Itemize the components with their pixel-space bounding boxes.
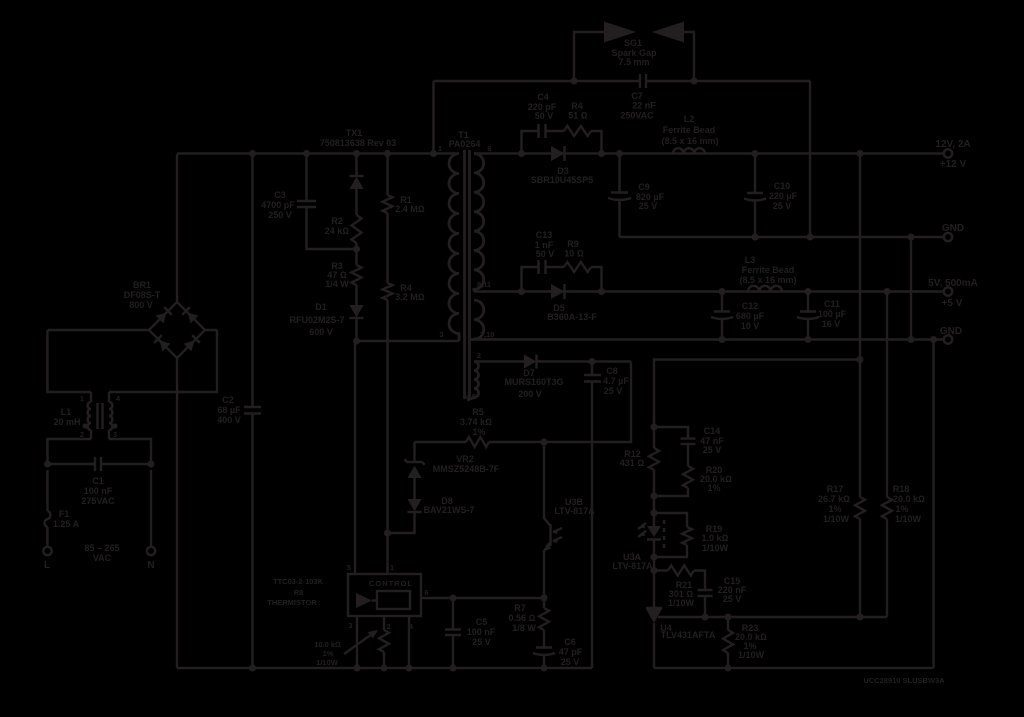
svg-text:2: 2 bbox=[80, 430, 84, 439]
svg-text:6: 6 bbox=[487, 144, 491, 153]
wire N leg bbox=[150, 470, 152, 547]
ground rail out1 bbox=[620, 236, 945, 238]
svg-text:C10: C10 bbox=[774, 181, 791, 191]
diode D7 aux bbox=[504, 355, 592, 400]
wire L leg up bbox=[48, 439, 92, 464]
wire drain to IC pin bbox=[354, 341, 356, 574]
capacitor C6 bbox=[533, 637, 583, 672]
svg-text:10 V: 10 V bbox=[741, 321, 760, 331]
svg-text:1.0 kΩ: 1.0 kΩ bbox=[702, 533, 729, 543]
svg-text:R18: R18 bbox=[893, 484, 910, 494]
svg-text:2.4 MΩ: 2.4 MΩ bbox=[395, 204, 425, 214]
spark gap SG1 bbox=[571, 22, 698, 85]
svg-text:3: 3 bbox=[439, 330, 443, 339]
svg-text:LTV-817A: LTV-817A bbox=[554, 506, 595, 516]
diode D5 output2 bbox=[547, 284, 597, 322]
optocoupler U3A LED bbox=[612, 513, 664, 571]
capacitor C14 bbox=[654, 426, 724, 466]
diode D3 output1 bbox=[531, 146, 594, 185]
capacitor C7 Y-cap bbox=[620, 74, 656, 121]
svg-text:3.74 kΩ: 3.74 kΩ bbox=[460, 417, 492, 427]
svg-text:1%: 1% bbox=[895, 504, 908, 514]
svg-text:4700 pF: 4700 pF bbox=[261, 200, 295, 210]
snubber C4 R4a loop out1 bbox=[518, 92, 605, 157]
svg-text:1/10W: 1/10W bbox=[823, 514, 850, 524]
svg-text:50 V: 50 V bbox=[536, 249, 555, 259]
optocoupler U3B phototransistor bbox=[544, 442, 595, 598]
svg-text:680 µF: 680 µF bbox=[736, 311, 765, 321]
svg-text:25 V: 25 V bbox=[604, 386, 623, 396]
label T1 part number bbox=[320, 128, 397, 148]
svg-text:TX1: TX1 bbox=[346, 128, 363, 138]
svg-text:51 Ω: 51 Ω bbox=[568, 111, 588, 121]
svg-text:1: 1 bbox=[390, 563, 394, 572]
wire choke left top to bridge AC1 bbox=[48, 330, 92, 392]
wire right edge down bbox=[930, 336, 937, 668]
svg-text:+12 V: +12 V bbox=[940, 159, 967, 170]
resistor R23 bbox=[723, 614, 767, 672]
common-mode choke L1 bbox=[53, 392, 120, 439]
svg-text:MURS160T3G: MURS160T3G bbox=[504, 377, 563, 387]
svg-text:C2: C2 bbox=[222, 395, 234, 405]
wire bridge negative to ground rail bbox=[176, 372, 178, 668]
wire Y-cap leg bbox=[432, 81, 434, 154]
svg-text:1/10W: 1/10W bbox=[738, 650, 765, 660]
ferrite bead L2 bbox=[661, 114, 718, 154]
fuse F1 bbox=[45, 470, 80, 547]
controller U1 box bbox=[347, 563, 429, 631]
svg-text:C1: C1 bbox=[92, 476, 104, 486]
resistor R2 clamp bbox=[325, 215, 362, 243]
svg-text:BR1: BR1 bbox=[133, 280, 151, 290]
svg-text:SG1: SG1 bbox=[624, 38, 642, 48]
shunt regulator U4 TLV431 bbox=[646, 571, 887, 669]
svg-text:600 V: 600 V bbox=[309, 327, 333, 337]
svg-text:C12: C12 bbox=[742, 301, 759, 311]
wire choke right top to bridge AC2 bbox=[109, 330, 217, 392]
wire R4 to IC pin bbox=[384, 300, 391, 574]
svg-text:PA0264: PA0264 bbox=[449, 139, 481, 149]
capacitor C3 clamp bbox=[261, 154, 356, 250]
svg-text:431 Ω: 431 Ω bbox=[620, 458, 645, 468]
svg-text:RFU02M2S-7: RFU02M2S-7 bbox=[289, 315, 344, 325]
capacitor C9 bbox=[608, 150, 665, 237]
svg-text:4.7 µF: 4.7 µF bbox=[603, 376, 629, 386]
svg-text:1/10W: 1/10W bbox=[702, 543, 729, 553]
svg-text:1: 1 bbox=[438, 144, 442, 153]
svg-text:UCC28910 SLUSBW3A: UCC28910 SLUSBW3A bbox=[863, 676, 945, 685]
svg-text:R7: R7 bbox=[514, 603, 526, 613]
svg-text:85 – 265: 85 – 265 bbox=[84, 543, 119, 553]
svg-text:1/10W: 1/10W bbox=[316, 658, 339, 667]
diode D1 clamp bottom bbox=[289, 285, 363, 341]
svg-text:68 µF: 68 µF bbox=[217, 405, 241, 415]
resistor R12 bbox=[620, 427, 659, 513]
svg-text:800 V: 800 V bbox=[129, 300, 153, 310]
svg-text:24 kΩ: 24 kΩ bbox=[325, 226, 350, 236]
svg-text:BAV21WS-7: BAV21WS-7 bbox=[424, 505, 475, 515]
svg-text:4,5: 4,5 bbox=[466, 392, 476, 401]
resistor R1 HV divider bbox=[383, 154, 425, 215]
svg-text:R17: R17 bbox=[827, 484, 844, 494]
svg-text:750813638 Rev 03: 750813638 Rev 03 bbox=[320, 138, 397, 148]
svg-text:1/10W: 1/10W bbox=[895, 514, 922, 524]
svg-text:TLV431AFTA: TLV431AFTA bbox=[661, 630, 716, 640]
GND terminal 1 bbox=[942, 223, 964, 241]
resistor R7 bbox=[509, 598, 549, 647]
svg-text:C8: C8 bbox=[606, 366, 618, 376]
svg-text:C11: C11 bbox=[824, 299, 840, 309]
svg-text:Ferrite Bead: Ferrite Bead bbox=[663, 125, 716, 135]
aux wire pin2 bbox=[474, 360, 524, 362]
resistor R4 HV divider bbox=[383, 213, 425, 302]
top isolation rail bbox=[434, 80, 811, 82]
svg-text:Ferrite Bead: Ferrite Bead bbox=[742, 265, 795, 275]
svg-text:C14: C14 bbox=[704, 426, 721, 436]
figure code bbox=[863, 676, 945, 685]
node VDD bbox=[589, 358, 632, 365]
svg-text:B360A-13-F: B360A-13-F bbox=[547, 312, 597, 322]
output terminal 5V bbox=[928, 278, 978, 309]
node bus-Ycap bbox=[430, 150, 437, 157]
capacitor C5 bbox=[445, 598, 496, 672]
svg-text:25 V: 25 V bbox=[472, 637, 491, 647]
AC input label 85-265 VAC bbox=[84, 543, 119, 563]
svg-text:MMSZ5248B-7F: MMSZ5248B-7F bbox=[433, 464, 500, 474]
resistor R18 feedback lower bbox=[882, 288, 925, 617]
feedback ground rail bbox=[654, 667, 934, 669]
svg-text:200 V: 200 V bbox=[518, 389, 542, 399]
opto column node top bbox=[651, 424, 658, 431]
svg-text:100 nF: 100 nF bbox=[84, 486, 113, 496]
drain wire bbox=[353, 338, 459, 345]
svg-text:7,10: 7,10 bbox=[480, 330, 495, 339]
svg-text:N: N bbox=[147, 560, 154, 571]
AC line terminal N bbox=[147, 547, 155, 571]
resistor R21 bbox=[651, 566, 706, 609]
svg-text:5V, 500mA: 5V, 500mA bbox=[928, 278, 978, 289]
svg-text:1%: 1% bbox=[707, 483, 720, 493]
svg-text:R9: R9 bbox=[567, 239, 579, 249]
svg-text:3.2 MΩ: 3.2 MΩ bbox=[395, 292, 425, 302]
svg-text:100 nF: 100 nF bbox=[467, 627, 496, 637]
primary ground rail bbox=[177, 667, 592, 669]
svg-text:GND: GND bbox=[940, 326, 962, 337]
svg-text:1%: 1% bbox=[828, 504, 841, 514]
svg-text:VAC: VAC bbox=[93, 553, 112, 563]
svg-text:6: 6 bbox=[424, 588, 428, 597]
svg-text:7.5 mm: 7.5 mm bbox=[618, 57, 649, 67]
svg-text:12V, 2A: 12V, 2A bbox=[935, 139, 970, 150]
svg-text:1.25 A: 1.25 A bbox=[53, 519, 80, 529]
GND terminal 2 bbox=[940, 326, 962, 344]
svg-text:TTC03-2-103K: TTC03-2-103K bbox=[273, 577, 324, 586]
LED supply tap wire bbox=[654, 360, 860, 428]
svg-text:0.56 Ω: 0.56 Ω bbox=[509, 613, 536, 623]
svg-text:8,11: 8,11 bbox=[477, 280, 491, 289]
svg-text:DF08S-T: DF08S-T bbox=[124, 290, 161, 300]
node clamp mid bbox=[353, 243, 360, 265]
svg-text:20 mH: 20 mH bbox=[53, 417, 80, 427]
svg-text:D1: D1 bbox=[315, 302, 327, 312]
svg-text:CONTROL: CONTROL bbox=[369, 579, 413, 588]
svg-text:5: 5 bbox=[347, 563, 351, 572]
svg-text:50 V: 50 V bbox=[535, 111, 554, 121]
IC drive pin wire bbox=[421, 595, 548, 602]
svg-text:C3: C3 bbox=[274, 190, 286, 200]
node bus-R1 bbox=[384, 150, 391, 157]
capacitor C1 X-cap bbox=[44, 457, 155, 506]
svg-text:26.7 kΩ: 26.7 kΩ bbox=[818, 494, 850, 504]
svg-text:1/10W: 1/10W bbox=[668, 598, 695, 608]
svg-text:250 V: 250 V bbox=[268, 210, 292, 220]
output rail 5V bbox=[474, 290, 944, 292]
capacitor C15 bbox=[698, 576, 747, 621]
svg-text:10 Ω: 10 Ω bbox=[564, 249, 584, 259]
svg-text:2: 2 bbox=[386, 622, 390, 631]
capacitor C12 bbox=[711, 288, 765, 343]
resistor R3 bbox=[325, 261, 361, 289]
svg-text:L2: L2 bbox=[684, 114, 695, 124]
svg-text:+5 V: +5 V bbox=[942, 298, 963, 309]
svg-text:L3: L3 bbox=[745, 255, 756, 265]
svg-text:R8: R8 bbox=[294, 588, 304, 597]
svg-text:400 V: 400 V bbox=[217, 415, 241, 425]
svg-text:(8.5 x 16 mm): (8.5 x 16 mm) bbox=[739, 275, 796, 285]
wire N leg up bbox=[109, 439, 151, 464]
svg-text:20.0 kΩ: 20.0 kΩ bbox=[893, 494, 925, 504]
output terminal 12V bbox=[935, 139, 970, 170]
resistor R5 bbox=[415, 362, 632, 448]
ferrite bead L3 bbox=[739, 255, 796, 292]
transformer T1 bbox=[438, 130, 494, 401]
svg-text:25 V: 25 V bbox=[561, 657, 580, 667]
capacitor C2 bulk bbox=[217, 150, 261, 672]
svg-text:R4: R4 bbox=[571, 101, 583, 111]
snubber C13 R9 loop out2 bbox=[518, 230, 605, 295]
svg-text:C7: C7 bbox=[631, 91, 643, 101]
svg-text:C6: C6 bbox=[564, 637, 576, 647]
svg-text:1%: 1% bbox=[472, 427, 485, 437]
svg-text:C13: C13 bbox=[536, 230, 553, 240]
svg-text:25 V: 25 V bbox=[703, 445, 722, 455]
svg-text:SBR10U45SP5: SBR10U45SP5 bbox=[531, 175, 594, 185]
svg-text:1%: 1% bbox=[323, 649, 334, 658]
capacitor C8 bbox=[584, 362, 629, 669]
svg-text:F1: F1 bbox=[59, 509, 70, 519]
zener VR2 bbox=[405, 442, 500, 499]
Y-cap down leg bbox=[807, 81, 814, 241]
diode D8 bbox=[388, 496, 475, 533]
ground rail out2 bbox=[470, 338, 944, 340]
output rail 12V bbox=[474, 152, 944, 154]
node bus-clamp bbox=[353, 150, 360, 157]
svg-text:1/8 W: 1/8 W bbox=[512, 623, 536, 633]
svg-text:THERMISTOR: THERMISTOR bbox=[267, 598, 317, 607]
capacitor C11 bbox=[797, 288, 847, 343]
node bus-C3 bbox=[303, 150, 310, 157]
svg-text:C9: C9 bbox=[638, 182, 650, 192]
svg-text:L1: L1 bbox=[61, 407, 72, 417]
svg-text:R2: R2 bbox=[331, 216, 343, 226]
svg-text:25 V: 25 V bbox=[723, 594, 742, 604]
svg-text:100 µF: 100 µF bbox=[818, 309, 847, 319]
svg-text:1/4 W: 1/4 W bbox=[325, 279, 349, 289]
svg-text:25 V: 25 V bbox=[639, 201, 658, 211]
resistor R20 bbox=[654, 465, 732, 496]
IC bottom pin right bbox=[406, 616, 413, 672]
svg-text:250VAC: 250VAC bbox=[620, 111, 654, 121]
IC bottom pin left bbox=[354, 616, 361, 672]
svg-text:3: 3 bbox=[348, 621, 352, 630]
capacitor C10 bbox=[744, 150, 798, 241]
svg-text:3: 3 bbox=[113, 430, 117, 439]
diode D2 clamp top bbox=[350, 154, 364, 216]
svg-text:LTV-817A: LTV-817A bbox=[612, 561, 653, 571]
svg-text:10.0 kΩ: 10.0 kΩ bbox=[314, 640, 341, 649]
bridge rectifier BR1 bbox=[48, 154, 218, 372]
svg-text:16 V: 16 V bbox=[822, 319, 841, 329]
svg-text:275VAC: 275VAC bbox=[81, 496, 115, 506]
svg-text:2: 2 bbox=[477, 351, 481, 360]
thermistor R8 bbox=[267, 577, 389, 672]
AC line terminal L bbox=[43, 547, 51, 571]
svg-text:220 µF: 220 µF bbox=[769, 191, 798, 201]
svg-text:1: 1 bbox=[80, 394, 84, 403]
svg-text:GND: GND bbox=[942, 223, 964, 234]
resistor R17 feedback upper bbox=[818, 150, 865, 621]
svg-text:C5: C5 bbox=[476, 617, 488, 627]
wire gnd tie bbox=[908, 234, 915, 344]
svg-text:L: L bbox=[44, 560, 50, 571]
main DC bus bbox=[177, 152, 459, 154]
svg-text:VR2: VR2 bbox=[456, 454, 474, 464]
resistor R19 bbox=[651, 510, 729, 558]
svg-text:C4: C4 bbox=[537, 92, 549, 102]
svg-text:22 nF: 22 nF bbox=[632, 101, 656, 111]
svg-text:R5: R5 bbox=[472, 407, 484, 417]
svg-text:47 pF: 47 pF bbox=[559, 647, 583, 657]
svg-text:(8.5 x 16 mm): (8.5 x 16 mm) bbox=[661, 136, 718, 146]
svg-text:25 V: 25 V bbox=[773, 201, 792, 211]
